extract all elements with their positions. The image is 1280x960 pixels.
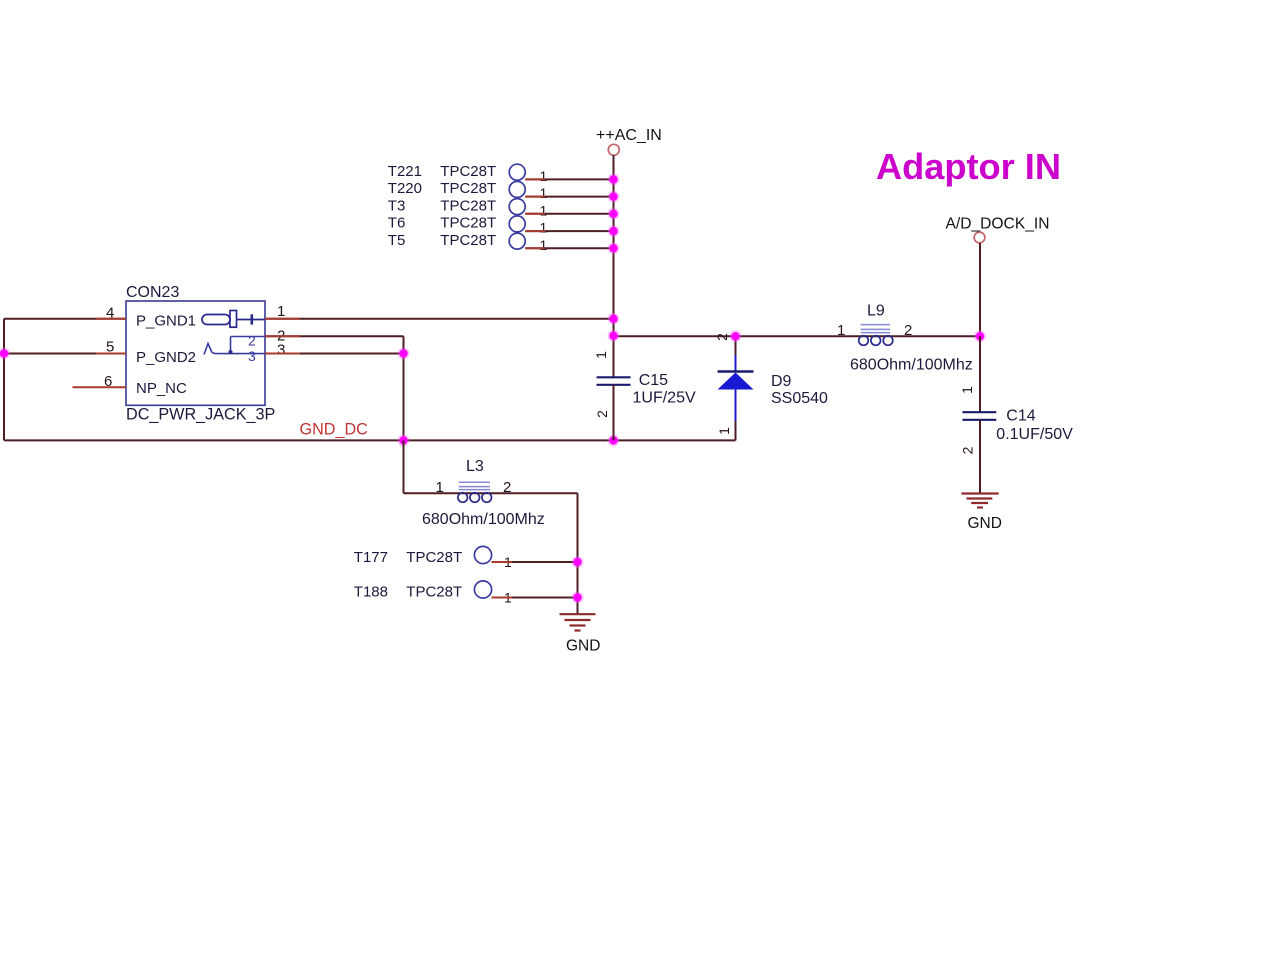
wire GND_DC down to L3 xyxy=(403,440,405,493)
testpoint T6 xyxy=(388,215,548,236)
svg-text:T3: T3 xyxy=(388,197,406,214)
svg-text:TPC28T: TPC28T xyxy=(406,584,462,601)
testpoint T221 xyxy=(388,163,548,184)
junction dot D9 top xyxy=(730,330,742,342)
wire T177 pin1 xyxy=(492,561,578,563)
testpoint T5 xyxy=(388,232,548,253)
svg-text:GND_DC: GND_DC xyxy=(300,421,369,439)
connector CON23 body xyxy=(126,301,265,405)
svg-text:2: 2 xyxy=(904,322,912,339)
junction dot pin1/AC_IN xyxy=(608,313,620,325)
junction dot GND_DC left branch xyxy=(398,434,410,446)
svg-text:1: 1 xyxy=(540,168,548,184)
junction dot T221 xyxy=(608,173,620,185)
svg-text:1: 1 xyxy=(277,303,285,320)
svg-text:1UF/25V: 1UF/25V xyxy=(633,390,696,407)
wire main bus to L9 xyxy=(614,335,981,337)
wire C15 bottom lead xyxy=(613,385,615,441)
ground symbol bottom xyxy=(560,614,596,630)
svg-text:DC_PWR_JACK_3P: DC_PWR_JACK_3P xyxy=(126,406,275,424)
junction dot C15 top xyxy=(608,330,620,342)
svg-text:1: 1 xyxy=(540,185,548,201)
wire T5 pin1 xyxy=(525,247,613,249)
svg-text:3: 3 xyxy=(248,348,256,364)
svg-text:TPC28T: TPC28T xyxy=(440,180,496,197)
svg-text:P_GND2: P_GND2 xyxy=(136,349,196,366)
testpoint T188 xyxy=(354,581,512,606)
wire pin4 to left rail xyxy=(4,318,126,320)
wire pin2 horizontal xyxy=(265,335,404,337)
inductor L9 ferrite bead symbol xyxy=(859,325,893,346)
svg-text:T221: T221 xyxy=(388,163,422,180)
node ++AC_IN terminal circle xyxy=(608,144,619,155)
svg-text:A/D_DOCK_IN: A/D_DOCK_IN xyxy=(946,216,1050,233)
wire GND_DC bottom rail xyxy=(4,439,736,441)
junction dot T6 xyxy=(608,225,620,237)
svg-text:SS0540: SS0540 xyxy=(771,390,828,407)
junction dot left rail pin5 xyxy=(0,348,10,360)
svg-text:2: 2 xyxy=(594,410,610,418)
connector CON23 switch symbol xyxy=(204,337,265,355)
svg-text:TPC28T: TPC28T xyxy=(440,232,496,249)
junction dot pin2/pin3 xyxy=(398,348,410,360)
wire pin5 to left rail xyxy=(4,353,126,355)
wire T6 pin1 xyxy=(525,230,613,232)
wire A/D_DOCK_IN vertical xyxy=(979,243,981,336)
svg-text:2: 2 xyxy=(714,333,730,341)
wire T3 pin1 xyxy=(525,213,613,215)
junction dot T5 xyxy=(608,242,620,254)
junction dot T3 xyxy=(608,208,620,220)
wire T220 pin1 xyxy=(525,196,613,198)
svg-text:1: 1 xyxy=(540,237,548,253)
svg-text:3: 3 xyxy=(277,342,285,359)
svg-text:P_GND1: P_GND1 xyxy=(136,313,196,330)
svg-text:D9: D9 xyxy=(771,373,792,390)
svg-text:1: 1 xyxy=(540,220,548,236)
svg-text:T188: T188 xyxy=(354,584,388,601)
svg-text:680Ohm/100Mhz: 680Ohm/100Mhz xyxy=(422,511,545,528)
wire pin2 vertical down xyxy=(403,336,405,440)
testpoint T220 xyxy=(388,180,548,201)
svg-text:2: 2 xyxy=(503,479,511,496)
svg-text:2: 2 xyxy=(248,333,256,349)
svg-text:C15: C15 xyxy=(639,372,668,389)
wire L3 out down to GND xyxy=(577,493,579,614)
svg-text:1: 1 xyxy=(436,479,444,496)
wire pin3 horizontal xyxy=(265,353,404,355)
svg-text:NP_NC: NP_NC xyxy=(136,380,187,397)
svg-text:T6: T6 xyxy=(388,215,406,232)
svg-text:TPC28T: TPC28T xyxy=(440,215,496,232)
junction dot T220 xyxy=(608,191,620,203)
junction dot GND_DC C15 xyxy=(608,434,620,446)
testpoint T177 xyxy=(354,546,512,570)
svg-text:L9: L9 xyxy=(867,303,885,320)
svg-text:GND: GND xyxy=(968,515,1002,532)
wire T221 pin1 xyxy=(525,178,613,180)
diode D9 xyxy=(714,333,754,441)
svg-text:GND: GND xyxy=(566,638,600,655)
svg-text:T220: T220 xyxy=(388,180,422,197)
svg-text:1: 1 xyxy=(593,351,609,359)
connector CON23 barrel jack symbol xyxy=(202,311,265,328)
junction dot T177 xyxy=(572,556,584,568)
svg-text:1: 1 xyxy=(959,386,975,394)
capacitor C15 xyxy=(593,351,631,418)
svg-text:TPC28T: TPC28T xyxy=(440,163,496,180)
ground symbol right xyxy=(961,494,998,508)
node A/D_DOCK_IN terminal circle xyxy=(974,232,985,243)
svg-text:1: 1 xyxy=(837,322,845,339)
svg-text:T5: T5 xyxy=(388,232,406,249)
svg-text:Adaptor IN: Adaptor IN xyxy=(876,146,1061,187)
wire left rail vertical xyxy=(3,319,5,441)
wire C14 bottom lead xyxy=(979,420,981,494)
svg-text:CON23: CON23 xyxy=(126,284,179,301)
svg-text:T177: T177 xyxy=(354,549,388,566)
svg-text:680Ohm/100Mhz: 680Ohm/100Mhz xyxy=(850,357,973,374)
svg-text:++AC_IN: ++AC_IN xyxy=(596,127,662,144)
testpoint T3 xyxy=(388,197,548,218)
junction dot T188 xyxy=(572,592,584,604)
wire pin6 stub xyxy=(73,386,127,388)
wire pin1 to AC_IN node xyxy=(265,318,614,320)
svg-text:1: 1 xyxy=(540,202,548,218)
svg-text:C14: C14 xyxy=(1006,408,1035,425)
wire L9 out down to C14 xyxy=(979,336,981,412)
svg-text:TPC28T: TPC28T xyxy=(440,197,496,214)
wire T188 pin1 xyxy=(492,597,578,599)
svg-text:1: 1 xyxy=(716,427,732,435)
svg-text:0.1UF/50V: 0.1UF/50V xyxy=(996,426,1073,443)
junction dot L9 out xyxy=(974,330,986,342)
capacitor C14 xyxy=(959,386,996,455)
wire AC_IN vertical xyxy=(613,155,615,377)
wire L3 row horizontal xyxy=(404,492,578,494)
svg-text:L3: L3 xyxy=(466,458,484,475)
svg-text:TPC28T: TPC28T xyxy=(406,549,462,566)
svg-text:2: 2 xyxy=(960,446,976,454)
inductor L3 ferrite bead symbol xyxy=(458,482,492,502)
